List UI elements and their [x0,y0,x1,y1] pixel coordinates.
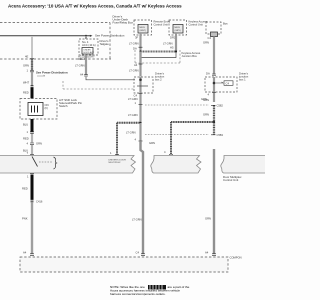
accessory harness wire (hatched) joining U1/U2 wires [141,51,177,53]
wire: U1 branch continues down [139,52,141,77]
svg-text:GRN: GRN [203,113,209,117]
connector at accessory box (right) [212,254,216,256]
svg-text:C4: C4 [136,251,140,255]
node on U2 wire [175,50,177,52]
svg-text:A4: A4 [205,251,209,255]
node + arrow to connector [213,82,216,85]
svg-text:C582: C582 [217,104,224,108]
dashed boundary bottom edge [0,58,111,60]
wire: left GRN segment [31,59,33,71]
svg-text:(II): (II) [45,106,48,110]
svg-text:1: 1 [110,151,112,155]
svg-text:LT GRN: LT GRN [128,113,138,117]
ACC bus wire [0,35,91,37]
internal bar [137,85,148,87]
node: bus to fuse junction [85,35,87,37]
connector at accessory box [30,254,34,256]
in-line connector + dashed link C583 [139,140,143,142]
accessory harness hatched wire to band 1 [117,122,141,124]
connector below junction box 2 [212,91,216,93]
note hatched wire sample [148,285,166,290]
svg-text:(WHT): (WHT) [140,30,147,32]
driver's junction box 1 (on x=140 wire) [134,77,153,93]
svg-text:A4: A4 [134,63,138,67]
connector tick on left wire at dashed boundary [30,58,34,60]
svg-text:Bus: Bus [223,22,228,26]
ignition switch inner box [28,103,43,116]
svg-text:box 2: box 2 [155,78,162,82]
fuse box dashed outline [79,39,98,55]
wire: x=214 hatched accessory harness [213,93,215,103]
svg-text:4: 4 [164,150,166,154]
wire: from U3 down [213,37,215,75]
svg-text:Fuse/Relay Box: Fuse/Relay Box [113,21,134,25]
connector below junction box [139,92,143,94]
svg-text:A4: A4 [80,73,84,77]
svg-text:Control Unit: Control Unit [189,23,203,27]
wire: left RED below band (black) [31,175,34,200]
svg-text:1: 1 [27,175,29,179]
svg-text:DA: DA [133,47,137,51]
svg-text:4: 4 [135,138,137,142]
node on x=214 wire [213,121,215,123]
wire: RED segment [31,134,33,143]
wire: below ignition box BLU (black) [31,119,34,132]
wire through junction box [139,77,141,93]
svg-text:1: 1 [135,101,137,105]
svg-text:LT GRN: LT GRN [129,69,139,73]
label: Driver's Under-Dash Fuse/Relay Box [113,15,134,25]
hatched wire down to band 2 [170,122,172,155]
svg-text:LT GRN: LT GRN [129,42,139,46]
fuse label [82,40,96,47]
dashed marker near thin wire [63,81,134,89]
svg-text:C583: C583 [217,133,224,137]
label below fuse box [78,55,95,62]
svg-text:Control Unit: Control Unit [154,23,168,27]
svg-text:LT GRN: LT GRN [128,97,138,101]
svg-text:box 1: box 1 [239,78,246,82]
connector tick [30,132,34,133]
svg-text:MULTIPLEX: MULTIPLEX [109,162,122,164]
wire: from U1 down [139,35,141,47]
connector with label [30,143,34,144]
svg-text:harness connectors/components: harness connectors/components outlets. [110,292,166,296]
remote control unit dashed box (U1) [134,20,152,35]
note text block [110,285,190,296]
hatched wire down to band 1 [116,123,118,155]
svg-text:RED: RED [23,137,29,141]
module band segment 1 (driver's door multiplex) [0,156,136,174]
svg-text:4E: 4E [25,55,28,59]
fuse inner box [82,48,93,55]
svg-text:Acura Accessory: '10 USA A/T w: Acura Accessory: '10 USA A/T w/ Keyless … [8,4,182,9]
keyless junction dashed box [135,50,180,63]
svg-text:HOOD ACC: HOOD ACC [84,51,95,54]
svg-text:Switch: Switch [59,104,68,108]
svg-text:See Power Distribution: See Power Distribution [36,71,68,75]
svg-text:COMPON: COMPON [230,256,242,260]
svg-text:Tailgate: Tailgate [100,42,110,46]
svg-text:LT GRN: LT GRN [163,42,173,46]
svg-text:1: 1 [27,69,29,73]
svg-text:RED: RED [23,91,29,95]
svg-text:WHT: WHT [23,81,29,85]
svg-text:C4: C4 [134,94,138,98]
accessory components dashed box [20,257,228,272]
svg-text:MICU: MICU [140,27,146,29]
in-line connector on left wire [31,86,34,88]
switch symbol inside band [32,157,38,167]
connector at end of fuse wire [84,75,88,77]
wire: from U2 down [175,35,177,51]
connector tick at band entry [30,154,34,156]
svg-text:See Power Distribution: See Power Distribution [95,34,125,38]
svg-text:PNK: PNK [22,217,28,221]
dashed boundary top edge (under-dash fuse/relay box region) [0,22,110,24]
svg-text:H5: H5 [170,46,174,50]
accessory harness hatched wire to band 2 [171,121,214,123]
connector tick below band left wire [30,173,34,175]
connector on left wire [30,71,34,72]
svg-text:GRN: GRN [36,142,42,146]
svg-text:LT GRN: LT GRN [75,64,85,68]
wire x=140 to lower connector [139,123,141,141]
svg-text:Control Unit: Control Unit [223,178,238,182]
svg-text:ACC (10 A): ACC (10 A) [82,43,96,47]
svg-text:GRN: GRN [23,64,29,68]
wire x=214 below C583 [213,149,215,254]
bus control unit dashed box (U3) [206,22,221,34]
svg-text:(GRY): (GRY) [175,30,181,32]
svg-text:4: 4 [27,142,29,146]
U1 inner box MICU [138,25,148,34]
svg-text:GRN: GRN [149,141,155,145]
in-line connector + dashed link C582 [139,103,143,105]
connector tick [139,46,143,48]
connector tick below keyless box [139,63,143,65]
svg-text:A4: A4 [23,251,27,255]
svg-text:GRN: GRN [203,98,209,102]
module band segment 3 (door multiplex control unit) [221,156,266,174]
band entry connector x=171 [169,154,173,156]
wire: BLU segment [31,145,33,155]
svg-text:GRN: GRN [203,41,209,45]
svg-text:C4: C4 [226,81,230,85]
wire: fuse output down [85,55,87,75]
label: ignition switch [59,98,82,108]
keyless access control unit dashed box (U2) [169,20,187,35]
band entry connector x=117 [115,154,119,156]
thin wire: fuse to junction box [86,77,135,80]
ignition switch dashed box [20,99,57,120]
U3 connector box [211,32,218,37]
svg-text:C4: C4 [208,36,212,40]
label right of fuse box [100,39,110,46]
wire: left branch WHT (x=32) [31,36,33,59]
connector at accessory box (center) [141,254,145,256]
svg-text:LT GRN: LT GRN [132,218,142,222]
wire: left RED segment (black) [31,88,34,99]
module band segment 2 [151,156,201,174]
node on U1 wire [139,50,141,52]
wire: x=140 continues [139,94,141,105]
thin loop wire [141,52,176,58]
dashed boundary right edge [109,23,111,60]
switch contacts [32,106,38,113]
svg-text:4: 4 [208,93,210,97]
svg-text:1: 1 [27,130,29,134]
driver's junction box 2 (on x=214 wire) [205,77,237,92]
svg-text:Junction Box: Junction Box [182,54,198,58]
connector at junction box 2 [212,74,216,76]
in-line connector C416 [31,200,34,202]
svg-text:BLU: BLU [23,123,28,127]
node on x=140 wire [139,122,141,124]
node: thin wire joins [139,79,142,82]
wire: left PNK segment [31,202,33,253]
wire: left WHT segment [31,72,33,86]
svg-text:GRN: GRN [205,217,211,221]
U2 inner box MICU [173,25,183,34]
svg-text:LT GRN: LT GRN [126,131,136,135]
svg-text:MICU: MICU [175,27,181,29]
arrow: see power distribution [90,35,93,37]
wire: fuse feed [85,36,87,39]
svg-text:DA: DA [206,72,210,76]
svg-text:3F: 3F [135,36,138,40]
svg-text:RED: RED [22,187,28,191]
svg-text:C416: C416 [36,200,43,204]
wire x=141 through band gap down to accessory box [141,141,144,253]
